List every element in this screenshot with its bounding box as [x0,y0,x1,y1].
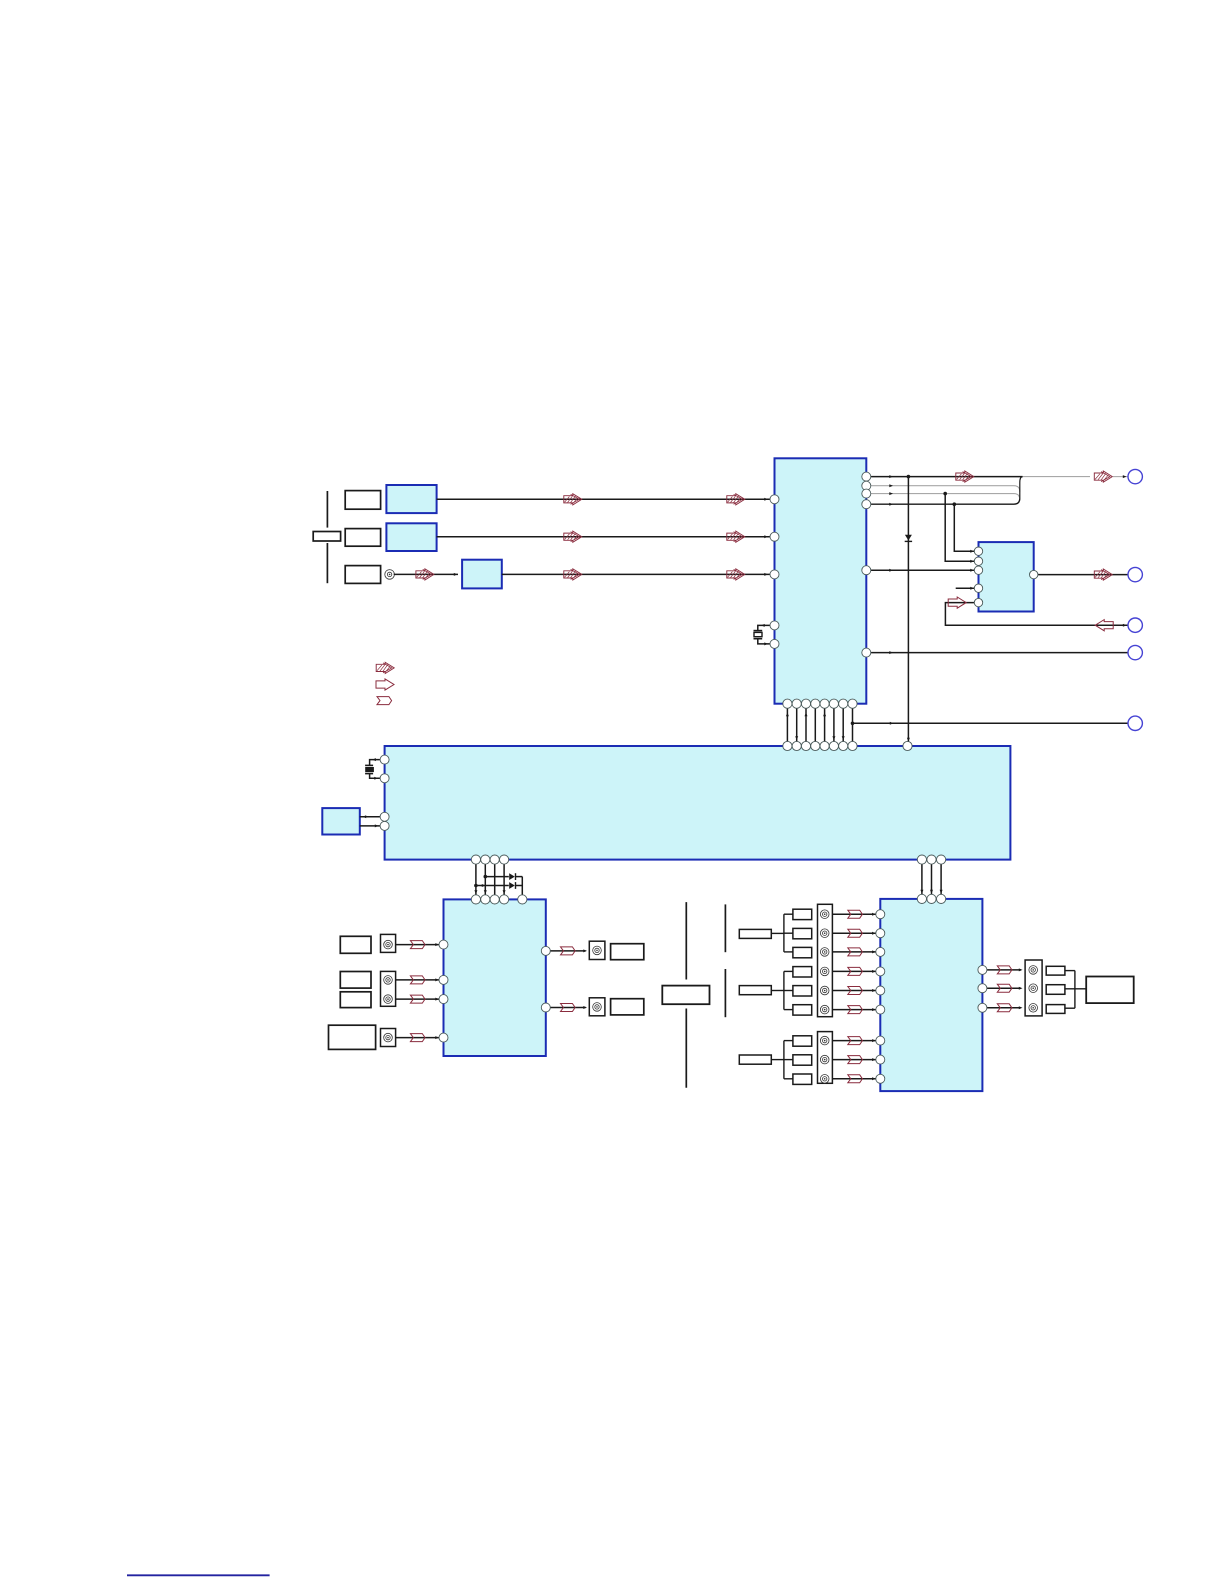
wire J14 to U4 [832,1039,876,1042]
crystal X2 [365,765,374,773]
IC U4 (AV switch) [880,899,982,1091]
label box TV out [1086,977,1134,1004]
block A1 (tuner front-end) [386,485,436,513]
wire U1 pin23 to U5 bus 3 [805,704,808,746]
group label box G2 [739,986,771,995]
signal arrow out 3 [997,1004,1012,1012]
wire U1 pin21 to U5 bus 1 [786,704,789,746]
signal arrow in 6 [848,1006,863,1014]
board edge line 2 [724,904,726,1017]
label box b7 [793,1036,812,1046]
label box L8 [611,944,644,960]
wire U1 pin25 to U5 bus 5 [823,704,826,746]
U5 left pins [380,755,389,830]
jack J17 [1029,966,1038,975]
U3 top pins [471,895,527,904]
signal arrow W7 [1094,569,1112,580]
wire G2 to bracket [771,990,784,992]
wire U5 to U3 bus 4 [503,860,506,900]
U5 bottom pins [471,855,945,864]
jack J14 [820,1036,829,1045]
block A2 [386,523,436,551]
junction W3 branch [943,492,947,496]
jack box CN5 [589,941,605,959]
connector R1 [1128,469,1142,483]
jack J10 [820,948,829,957]
jack J16 [820,1075,829,1084]
wire J15 to U4 [832,1058,876,1061]
wire W6 U1 to connector R4 [866,651,1128,654]
connector R2 [1128,567,1142,581]
wire U5 to U3 bus 1 [474,860,477,900]
wire row1 A1 to U1 pin [437,498,770,501]
wire W7 U2 to connector R2 [1038,574,1128,576]
signal arrow J3 [410,976,425,984]
U2 right pin [1030,570,1038,578]
junction diode branch upper [484,875,488,879]
U4 right pins [978,965,987,1012]
IC U3 (audio input selector) [444,899,546,1056]
label box L3 [345,566,380,584]
wire U5 to U3 bus 2 [484,860,487,900]
group label box G3 [739,1055,771,1064]
jack J9 [820,929,829,938]
junction diode branch lower [474,884,478,888]
jack J4 [384,995,393,1004]
junction W1/diode line [907,475,911,479]
U2 left pins [974,547,982,607]
U3 right pins [541,946,550,1012]
signal arrow out 1 [997,966,1012,974]
bracket group 2 [784,971,793,1009]
U5 top pins [783,741,912,750]
wire W4 (bus line) [866,498,1020,506]
wire W3 (bus line) [866,492,1020,500]
signal arrow out A [561,947,576,955]
block A4 (reset) [322,808,360,834]
wire diode branch upper [485,876,522,878]
jack J3 [384,976,393,985]
jack strip CN9 [818,1032,833,1084]
label box L4 [340,936,371,953]
wire U4 to J18 [982,987,1022,990]
wire W1 U1 to connector R1 [866,475,1128,478]
jack J18 [1029,984,1038,993]
label box L1 [345,491,380,510]
label box b8 [793,1055,812,1065]
U3 left pins [439,940,448,1042]
wire J5 to U3 [396,1036,440,1039]
jack J19 [1029,1004,1038,1013]
IC U5 (system bus controller) [385,746,1011,860]
wire row2 A2 to U1 pin [437,535,770,538]
bus riser joining W2-W4 into W1 [1020,477,1023,499]
label box b6 [793,1005,812,1015]
U1 left pins [770,495,779,649]
label box b3 [793,947,812,957]
legend hatched arrow [376,662,394,673]
wire U5 to U3 bus 3 [494,860,496,900]
diode D2 [509,873,515,880]
wire diode output to U3 pin5 [521,877,523,900]
jack box CN3 [381,971,396,1006]
diode D3 [509,882,515,889]
control arrow on R3 wire [1095,620,1113,631]
wire U1 pin24 to U5 bus 4 [814,704,816,746]
jack box CN4 [381,1029,396,1047]
signal arrow J4 [410,995,425,1003]
wire X1 top to U1 pin [758,624,770,631]
wire W3 branch to U2 pin2 [945,494,974,563]
legend chevron arrow [377,697,392,705]
signal arrow J5 [410,1034,425,1042]
wire G1 to bracket [771,932,784,934]
crystal X1 [754,631,763,639]
wire W2 (bus line) [866,484,1020,492]
wire X1 bottom to U1 pin [758,639,770,646]
wire W5 U1 to U2 pin3 [866,569,974,572]
wire J10 to U4 [832,950,876,953]
wire X2 top to U5 pin [370,758,380,765]
bracket output group [1065,971,1086,1009]
U4 left pins [876,910,885,1084]
bracket group 3 [784,1041,793,1079]
jack strip CN8 [818,904,833,1016]
wire X2 bottom to U5 pin [370,774,380,780]
wire J2 to U3 [396,943,440,946]
wire J9 to U4 [832,932,876,935]
jack J7 [593,1003,602,1012]
jack J2 [384,940,393,949]
signal arrow out 2 [997,984,1012,992]
jack J11 [820,967,829,976]
signal arrow J2 [410,941,425,949]
wire J13 to U4 [832,1008,876,1011]
diode D1 power line [905,477,912,746]
signal arrow row1-a [564,494,582,505]
jack strip CN10 [1025,960,1042,1016]
label box b1 [793,909,812,919]
wire J12 to U4 [832,989,876,992]
label box wb1 [1046,966,1065,975]
wire U4 to J17 [982,968,1022,971]
wire U5 to U4 bus 2 [930,860,933,899]
signal arrow row2-b [727,531,745,542]
signal arrow row1-b [727,494,745,505]
label box wb3 [1046,1005,1065,1014]
wire U1 pin22 to U5 bus 2 [795,704,798,746]
label box L7 [329,1025,376,1049]
signal arrow row3-a [416,569,434,580]
wire row3 A3 to U1 pin [502,573,770,576]
block A3 (input amp) [462,560,502,589]
wire U5 to U4 bus 3 [940,860,943,899]
signal arrow row2-a [564,531,582,542]
label box b5 [793,986,812,996]
wire U5 to U4 bus 1 [920,860,923,899]
label box b4 [793,967,812,977]
jack J6 [593,946,602,955]
label box b9 [793,1074,812,1084]
IC U2 (output driver) [979,542,1034,611]
jack J1 [385,570,395,580]
signal arrow in 3 [848,948,863,956]
group label box G1 [739,929,771,938]
signal arrow row3-c [727,569,745,580]
label box L6 [340,992,371,1008]
signal arrow in 9 [848,1075,863,1083]
jack J8 [820,910,829,919]
wire W8 to connector R5 [853,722,1128,725]
signal arrow in 1 [848,910,863,918]
wire U1 pin28 to U5 bus 8 [852,704,854,746]
wire return from connector R3 to U2 pin5 [945,603,1127,627]
U1 right pins [862,472,871,657]
jack J12 [820,986,829,995]
signal arrow in 4 [848,967,863,975]
wire A4 out to U5 [360,815,380,818]
connector R4 [1128,645,1142,659]
signal arrow row3-b [564,569,582,580]
connector CN1 (board edge line with connector box) [313,491,340,583]
signal arrow out B [561,1004,576,1012]
IC U1 (main processor) [775,458,867,703]
control arrow into U2 pin5 [948,597,966,608]
wire J16 to U4 [832,1077,876,1080]
junction W4 branch [953,502,957,506]
wire J3 to U3 [396,978,440,981]
wire stub to U2 pin4 [956,587,975,590]
wire G3 to bracket [771,1059,784,1061]
U1 bottom pins [783,699,857,708]
jack J15 [820,1055,829,1064]
label box L5 [340,972,371,989]
signal arrow W1-a [956,471,974,482]
connector R5 [1128,716,1142,730]
label box b2 [793,928,812,938]
wire U4 to J19 [982,1006,1022,1009]
jack box CN6 [589,998,605,1016]
jack J13 [820,1005,829,1014]
signal arrow in 5 [848,987,863,995]
label box L9 [611,999,644,1015]
wire U3 to J7 [546,1006,587,1009]
label box wb2 [1046,985,1065,995]
wire U1 pin26 to U5 bus 6 [832,704,835,746]
jack J5 [384,1033,393,1042]
connector CN7 (board edge line with connector box) [662,902,709,1088]
wire row3 J1 to A3 [394,573,458,576]
legend open arrow [376,679,394,690]
wire W4 branch to U2 pin1 [954,504,974,553]
connector R3 [1128,618,1142,632]
wire U1 pin27 to U5 bus 7 [842,704,845,746]
U4 top pins [917,894,945,903]
wire J4 to U3 [396,998,440,1001]
wire J11 to U4 [832,970,876,973]
label box L2 [345,529,380,547]
wire U3 to J6 [546,949,587,952]
wire A4 in from U5 [360,824,380,827]
junction W8 on U1-bar wire 8 [851,722,855,726]
signal arrow in 7 [848,1037,863,1045]
jack box CN2 [381,934,396,952]
bracket group 1 [784,914,793,952]
wire diode branch lower [476,884,522,887]
signal arrow W1-b [1094,471,1112,482]
footer link line [127,1574,270,1576]
signal arrow in 8 [848,1056,863,1064]
wire J8 to U4 [832,913,876,916]
signal arrow in 2 [848,929,863,937]
